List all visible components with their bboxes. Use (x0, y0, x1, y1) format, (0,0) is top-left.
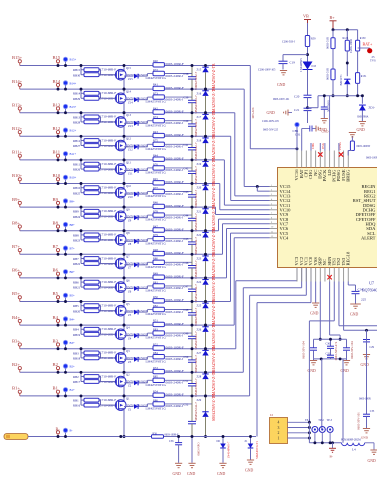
svg-text:Z15: Z15 (128, 77, 133, 81)
transistor Q3 2N7002W (101, 357, 117, 359)
resistor R124 (332, 30, 334, 38)
wire TP3 feed (342, 359, 344, 443)
resistor RB23 C710-68R (81, 239, 84, 241)
svg-text:B8+: B8+ (70, 223, 76, 227)
svg-text:C710-68R-F: C710-68R-F (100, 115, 117, 119)
pin VC3 (296, 268, 298, 282)
wire (365, 442, 374, 444)
svg-text:REG18: REG18 (345, 251, 350, 265)
ground (366, 342, 368, 354)
svg-text:Z1: Z1 (128, 407, 132, 411)
svg-text:C39: C39 (184, 96, 189, 100)
resistor RB30 C710-68R (81, 74, 84, 76)
svg-text:C206-100V-105: C206-100V-105 (258, 69, 276, 72)
svg-text:LM4Z5V6T1G: LM4Z5V6T1G (146, 289, 167, 293)
svg-text:SMAZ56V-Z-TR: SMAZ56V-Z-TR (212, 157, 216, 184)
zener D6 cell clamp (205, 278, 207, 280)
resistor R73 240R (147, 97, 149, 100)
svg-text:RB29: RB29 (73, 97, 81, 101)
pin SRP (319, 268, 321, 282)
svg-text:RB6: RB6 (73, 281, 79, 285)
svg-text:GND: GND (277, 83, 285, 87)
pin PACK (324, 151, 326, 168)
resistor R83 240R (147, 333, 149, 336)
resistor R49 100R (153, 275, 164, 279)
svg-text:0603-100R-F: 0603-100R-F (166, 393, 184, 397)
wire Q1 source to row B0 (123, 409, 125, 437)
svg-text:GND: GND (173, 472, 181, 476)
svg-text:R54: R54 (153, 390, 158, 394)
svg-text:C42: C42 (184, 166, 189, 170)
svg-text:C710-68R-F: C710-68R-F (100, 374, 117, 378)
wire TP2 feed (321, 359, 323, 430)
wire TS1 to connector (333, 282, 335, 321)
wire B+ rail (333, 29, 358, 31)
svg-text:MMSZ5242-7: MMSZ5242-7 (194, 213, 198, 232)
svg-text:R75: R75 (153, 139, 158, 143)
svg-text:C47: C47 (184, 284, 189, 288)
svg-text:0603-100R-F: 0603-100R-F (166, 204, 184, 208)
pin REG18 (347, 268, 349, 282)
svg-text:GND: GND (350, 313, 358, 317)
svg-text:Z20: Z20 (197, 186, 202, 190)
svg-text:0603-100R-F: 0603-100R-F (166, 322, 184, 326)
svg-text:RB7: RB7 (73, 257, 79, 261)
svg-text:GND: GND (341, 369, 349, 373)
resistor RB4 C710-68R (80, 325, 82, 334)
svg-text:RB13: RB13 (73, 115, 81, 119)
svg-text:0603-100R-F: 0603-100R-F (166, 86, 184, 90)
wire Q4 source to row B3 (123, 338, 125, 349)
svg-text:B15: B15 (53, 55, 61, 60)
svg-text:R42: R42 (153, 106, 158, 110)
svg-text:C30: C30 (326, 343, 331, 346)
transistor Q4 2N7002W (101, 333, 117, 335)
svg-text:0603-50V-104: 0603-50V-104 (302, 341, 306, 359)
capacitor C21 (304, 107, 312, 109)
wire B9 to VC9 (215, 207, 217, 214)
svg-text:LM4Z5V6T1G: LM4Z5V6T1G (146, 336, 167, 340)
wire row B1 (20, 395, 250, 397)
wire B7 to VC7 (222, 224, 224, 255)
svg-text:SMAZ56V-Z-TR: SMAZ56V-Z-TR (212, 87, 216, 114)
wire row B7 (20, 253, 223, 255)
resistor R54 100R (153, 393, 164, 397)
zener Z14 LM4Z5V6 (124, 99, 134, 101)
svg-text:Z7: Z7 (128, 266, 132, 270)
svg-text:C36: C36 (169, 440, 174, 443)
svg-text:R44: R44 (153, 154, 158, 158)
ground (370, 449, 377, 451)
svg-text:Q15: Q15 (126, 66, 132, 70)
resistor R41 100R (153, 86, 164, 90)
svg-text:0603-240R-J: 0603-240R-J (166, 215, 184, 219)
capacitor C20 (304, 94, 312, 96)
pin VC12 (270, 199, 278, 201)
svg-text:R76: R76 (153, 162, 158, 166)
resistor RB8 C710-68R (80, 231, 82, 240)
junction (57, 229, 60, 232)
resistor RB1 C710-68R (80, 396, 82, 405)
svg-text:0603-50V-104: 0603-50V-104 (350, 341, 354, 359)
svg-text:BQ76940: BQ76940 (362, 288, 377, 293)
zener Z8 LM4Z5V6 (124, 240, 134, 242)
svg-text:TP-3: TP-3 (327, 419, 333, 422)
svg-text:MMSZ5242-7: MMSZ5242-7 (194, 71, 198, 90)
svg-text:0603-51R: 0603-51R (326, 68, 330, 80)
capacitor C47 (191, 278, 193, 289)
wire B11 to VC11 (223, 160, 225, 205)
resistor RB26 C710-68R (81, 168, 84, 170)
connector J2 (270, 418, 288, 444)
zener Z12 LM4Z5V6 (124, 146, 134, 148)
svg-text:0603-100R-F: 0603-100R-F (166, 275, 184, 279)
svg-text:B1+: B1+ (70, 388, 76, 392)
svg-text:LM4Z5V6T1G: LM4Z5V6T1G (146, 241, 167, 245)
svg-text:RB19: RB19 (73, 333, 81, 337)
svg-text:C710-68R-F: C710-68R-F (100, 256, 117, 260)
zener Z13 LM4Z5V6 (124, 122, 134, 124)
svg-text:B2+: B2+ (70, 365, 76, 369)
net label B12+ (63, 128, 68, 133)
capacitor C51 (191, 372, 193, 383)
svg-text:MMSZ5242-7: MMSZ5242-7 (194, 284, 198, 303)
wire (307, 98, 309, 109)
svg-text:C710-68R-F: C710-68R-F (100, 91, 117, 95)
resistor RB25 C710-68R (81, 192, 84, 194)
svg-text:R53: R53 (153, 366, 158, 370)
svg-text:B7+: B7+ (70, 247, 76, 251)
svg-text:Z27: Z27 (197, 351, 202, 355)
wire chain end to ground (191, 437, 193, 463)
wire B10 to VC10 (219, 184, 221, 210)
junction (57, 371, 60, 374)
svg-text:R86: R86 (153, 398, 158, 402)
wire LD (329, 96, 331, 151)
svg-text:MMSZ5242-7: MMSZ5242-7 (194, 95, 198, 114)
svg-text:RB3: RB3 (73, 351, 79, 355)
svg-text:Z13: Z13 (128, 124, 133, 128)
resistor R46 100R (153, 204, 164, 208)
capacitor C42 (191, 160, 193, 171)
svg-text:MMSZ5242-7: MMSZ5242-7 (194, 189, 198, 208)
zener D9 cell clamp (205, 207, 207, 209)
svg-text:SMAZ56V-Z-TR: SMAZ56V-Z-TR (212, 181, 216, 208)
svg-text:MMSZ5242-7: MMSZ5242-7 (194, 402, 198, 421)
resistor R56 100R (152, 435, 164, 438)
wire B2 to VC2 (301, 268, 303, 288)
svg-text:R85: R85 (153, 375, 158, 379)
pin VSS (315, 268, 317, 282)
wire row B11 (20, 159, 225, 161)
pin SRN (329, 268, 331, 282)
svg-text:GND: GND (308, 369, 316, 373)
resistor RB19 C710-68R (81, 333, 84, 335)
capacitor C49 (191, 325, 193, 336)
svg-text:C19: C19 (290, 61, 296, 65)
svg-text:Z26: Z26 (197, 327, 202, 331)
svg-text:0603-100R-F: 0603-100R-F (166, 345, 184, 349)
net label B11+ (63, 151, 68, 156)
svg-text:Q14: Q14 (126, 90, 132, 94)
wire row B- (28, 436, 256, 438)
ground sideways (315, 126, 317, 132)
resistor R43 100R (153, 133, 164, 137)
svg-text:11: 11 (271, 231, 273, 233)
svg-text:R46: R46 (153, 201, 158, 205)
svg-text:SD5-A06: SD5-A06 (252, 107, 255, 118)
capacitor C35 (366, 330, 368, 414)
transistor Q12 2N7002W (101, 145, 117, 147)
ground (313, 359, 315, 360)
svg-text:Z15: Z15 (197, 68, 202, 72)
svg-text:0603-NPO-472: 0603-NPO-472 (334, 341, 338, 360)
zener D3 cell clamp (205, 349, 207, 351)
svg-text:R78: R78 (153, 210, 158, 214)
wire B4 to VC4 (233, 238, 235, 325)
pin CHG (310, 151, 312, 168)
svg-text:1: 1 (271, 185, 272, 187)
resistor RB28 C710-68R (81, 121, 84, 123)
svg-text:C710-68R-F: C710-68R-F (100, 398, 117, 402)
svg-text:C51: C51 (184, 379, 189, 383)
junction (57, 88, 60, 91)
capacitor C43 (191, 184, 193, 195)
svg-text:LM4Z5V6T1G: LM4Z5V6T1G (146, 123, 167, 127)
wire B1 to VC1 (305, 268, 307, 296)
svg-text:Z23: Z23 (197, 257, 202, 261)
wire row B6 (20, 277, 227, 279)
svg-text:SMAZ56V-Z-TR: SMAZ56V-Z-TR (212, 299, 216, 326)
resistor RB5 C710-68R (80, 302, 82, 311)
svg-text:B14: B14 (53, 79, 61, 84)
net label B7+ (63, 246, 68, 251)
svg-text:LM4Z5V6T1G: LM4Z5V6T1G (146, 171, 167, 175)
svg-text:Q9: Q9 (126, 208, 130, 212)
svg-text:C52: C52 (184, 402, 189, 406)
pin CP1 (305, 151, 307, 168)
resistor R77 240R (147, 192, 149, 195)
svg-text:0603-240R-J: 0603-240R-J (166, 121, 184, 125)
svg-text:0603-100V-101: 0603-100V-101 (273, 98, 290, 101)
capacitor C32 (330, 348, 332, 355)
svg-text:RB1: RB1 (73, 399, 79, 403)
transistor Q13 2N7002W (101, 121, 117, 123)
svg-text:RB9: RB9 (73, 210, 79, 214)
svg-text:C50: C50 (184, 355, 189, 359)
svg-text:Z19: Z19 (197, 162, 202, 166)
capacitor C39 (191, 89, 193, 100)
svg-text:Z6: Z6 (128, 289, 132, 293)
svg-text:D15: D15 (312, 65, 317, 68)
svg-text:GND: GND (245, 469, 253, 473)
net label B14+ (63, 80, 68, 85)
svg-text:B11+: B11+ (70, 152, 77, 156)
resistor RB11 C710-68R (80, 160, 82, 169)
svg-text:RB23: RB23 (73, 239, 81, 243)
capacitor C31 (302, 128, 310, 130)
svg-text:B-: B- (330, 455, 333, 459)
svg-text:C29: C29 (370, 346, 375, 349)
svg-text:B12+: B12+ (12, 126, 23, 131)
zener D5 cell clamp (205, 302, 207, 304)
resistor R51 100R (153, 322, 164, 326)
svg-text:B12+: B12+ (70, 129, 77, 133)
svg-text:RB15: RB15 (73, 68, 81, 72)
svg-text:3: 3 (278, 426, 280, 430)
svg-text:RB12: RB12 (73, 139, 81, 143)
resistor RB15 C710-68R (80, 66, 82, 75)
pin VC1 (305, 268, 307, 282)
svg-text:SMAZ5V6-T1: SMAZ5V6-T1 (255, 441, 259, 459)
svg-text:1N4448WS: 1N4448WS (299, 58, 303, 72)
no-connect X NC bottom (327, 275, 331, 279)
svg-text:J2: J2 (270, 413, 273, 417)
svg-text:B11+: B11+ (12, 150, 22, 155)
resistor R82 240R (147, 310, 149, 313)
svg-text:C710-68R-F: C710-68R-F (100, 162, 117, 166)
resistor R48 100R (153, 251, 164, 255)
svg-text:Z8: Z8 (128, 242, 132, 246)
svg-text:GND: GND (361, 436, 369, 440)
resistor RB2 C710-68R (80, 372, 82, 381)
svg-text:BAT+: BAT+ (363, 42, 374, 47)
svg-text:0603-240R-J: 0603-240R-J (166, 97, 184, 101)
resistor R86 240R (147, 404, 149, 407)
svg-text:C20: C20 (294, 95, 300, 99)
resistor R44 100R (153, 157, 164, 161)
pin LD (329, 151, 331, 168)
svg-text:LM4Z5V6T1G: LM4Z5V6T1G (146, 100, 167, 104)
zener Z9 LM4Z5V6 (124, 217, 134, 219)
capacitor C26 (313, 339, 315, 348)
svg-text:SMAZ56V-Z-TR: SMAZ56V-Z-TR (212, 228, 216, 255)
svg-text:LM4Z5V6T1G: LM4Z5V6T1G (146, 76, 167, 80)
svg-text:RB30: RB30 (73, 73, 81, 77)
resistor R40 100R (153, 63, 164, 67)
svg-text:RB18: RB18 (73, 357, 81, 361)
svg-text:Q6: Q6 (126, 278, 130, 282)
resistor R80 240R (147, 262, 149, 265)
op-amp U7 BQ76940 body (278, 168, 377, 268)
wire (346, 51, 348, 76)
svg-text:R45: R45 (153, 177, 158, 181)
svg-text:VB: VB (303, 14, 309, 19)
svg-text:R48: R48 (153, 248, 158, 252)
junction (57, 300, 60, 303)
wire row B13 (20, 112, 235, 114)
svg-text:0603-240R-J: 0603-240R-J (166, 74, 184, 78)
wire (332, 80, 334, 96)
junction (57, 158, 60, 161)
junction (57, 182, 60, 185)
transistor Q2 2N7002W (101, 381, 117, 383)
net label B2+ (63, 364, 68, 369)
capacitor C46 (191, 254, 193, 265)
zener Z4 LM4Z5V6 (124, 335, 134, 337)
wire rail (318, 95, 362, 97)
resistor R130 (357, 30, 359, 41)
wire Q8 source to row B7 (123, 244, 125, 255)
ground (247, 459, 254, 461)
diode D14 (344, 79, 350, 84)
svg-text:TVS: TVS (370, 59, 376, 63)
svg-text:B10+: B10+ (70, 176, 77, 180)
junction (57, 135, 60, 138)
pin VC2 (301, 268, 303, 282)
wire B12 to VC12 (230, 136, 232, 200)
pin BREG (347, 151, 349, 168)
svg-text:GND: GND (357, 128, 365, 132)
transistor Q5 2N7002W (101, 310, 117, 312)
wire jog VC15 to VC14 (256, 185, 259, 188)
svg-text:SMAZ56V-Z-TR: SMAZ56V-Z-TR (212, 63, 216, 90)
svg-text:0603-100R-F: 0603-100R-F (166, 298, 184, 302)
svg-text:0603-240R-J: 0603-240R-J (166, 286, 184, 290)
svg-text:C206-180R: C206-180R (349, 39, 353, 53)
resistor R125 (332, 49, 334, 69)
svg-text:C710-68R-F: C710-68R-F (100, 280, 117, 284)
svg-text:B12: B12 (53, 126, 61, 131)
svg-text:LM4Z5V6T1G: LM4Z5V6T1G (146, 383, 167, 387)
svg-text:Q11: Q11 (126, 160, 131, 164)
wire connector bus (308, 422, 310, 443)
resistor R50 100R (153, 299, 164, 303)
transistor Q14 2N7002W (101, 97, 117, 99)
svg-text:2: 2 (271, 189, 272, 191)
capacitor C27 (346, 339, 348, 348)
svg-text:R41: R41 (153, 83, 158, 87)
svg-text:R73: R73 (153, 92, 158, 96)
wire B14 to VC15 (243, 89, 245, 186)
resistor RB21 C710-68R (81, 286, 84, 288)
svg-text:RB4: RB4 (73, 328, 79, 332)
pin VC5 (270, 232, 278, 234)
svg-text:0603-100R-F: 0603-100R-F (166, 227, 184, 231)
svg-text:C206-100V-105: C206-100V-105 (262, 120, 279, 123)
net label B8+ (63, 222, 68, 227)
svg-text:C35: C35 (370, 410, 375, 413)
svg-text:U7: U7 (369, 281, 374, 286)
svg-text:Z3: Z3 (128, 360, 132, 364)
svg-text:SMAZ56V-Z-TR: SMAZ56V-Z-TR (212, 346, 216, 373)
svg-text:GND: GND (187, 472, 195, 476)
ground (366, 416, 368, 428)
svg-text:TP-2: TP-2 (318, 419, 324, 422)
resistor R126 (346, 30, 348, 41)
svg-text:C710-68R-F: C710-68R-F (100, 138, 117, 142)
svg-text:C48: C48 (184, 308, 189, 312)
wire row B4 (20, 324, 234, 326)
svg-text:R59: R59 (311, 38, 316, 41)
svg-text:225: 225 (361, 298, 366, 302)
svg-text:C40: C40 (184, 119, 189, 123)
svg-text:DSG: DSG (321, 142, 325, 149)
wire Q3 source to row B2 (123, 362, 125, 373)
svg-text:0603-240R-J: 0603-240R-J (166, 357, 184, 361)
resistor RB22 C710-68R (81, 263, 84, 265)
svg-text:0603-100R-F: 0603-100R-F (166, 109, 184, 113)
wire (307, 47, 309, 62)
zener D4 cell clamp (205, 325, 207, 327)
svg-text:ZD1-: ZD1- (369, 106, 376, 110)
resistor RB29 C710-68R (81, 97, 84, 99)
svg-text:Q12: Q12 (126, 137, 132, 141)
pin PDSG (338, 151, 340, 168)
ground (346, 359, 348, 360)
resistor RB20 C710-68R (81, 310, 84, 312)
svg-text:Z5: Z5 (128, 313, 132, 317)
